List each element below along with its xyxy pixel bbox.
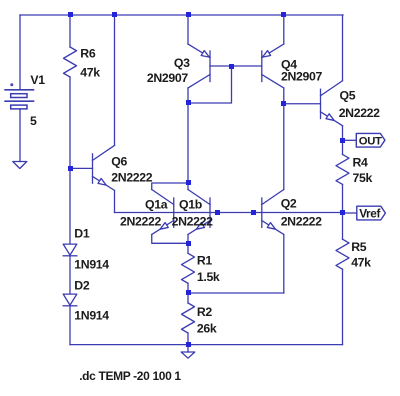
- svg-text:1.5k: 1.5k: [197, 270, 220, 284]
- svg-text:2N2907: 2N2907: [281, 69, 322, 83]
- junction node top rail / Q4 emitter: [281, 12, 286, 17]
- wire mirror node down to Q1 collectors: [187, 103, 189, 183]
- junction node Q1 collectors: [186, 180, 191, 185]
- junction node Vref: [340, 210, 345, 215]
- svg-text:R6: R6: [80, 47, 96, 61]
- transistor Q3 (PNP): [188, 44, 210, 88]
- svg-text:Q1a: Q1a: [145, 198, 168, 212]
- resistor R2: [182, 303, 195, 333]
- wire ground stub: [187, 345, 189, 352]
- wire R5 bottom lead: [342, 269, 344, 344]
- junction node Q2 base on Vref rail: [251, 210, 256, 215]
- wire Q3 collector down: [187, 88, 189, 103]
- svg-text:5: 5: [30, 114, 37, 128]
- wire R6 to D1 through Q6 base node: [69, 77, 71, 244]
- wire Q5 collector to top rail: [342, 15, 344, 81]
- svg-text:2N2222: 2N2222: [120, 214, 161, 228]
- junction node Q1 emitters / R1: [186, 241, 191, 246]
- svg-text:Q3: Q3: [174, 56, 190, 70]
- wire R6 top lead: [69, 15, 71, 47]
- svg-text:2N2222: 2N2222: [339, 106, 380, 120]
- svg-text:Q5: Q5: [340, 89, 356, 103]
- wire Q3-Q4 base tie: [210, 65, 262, 67]
- junction node OUT: [340, 138, 345, 143]
- svg-text:OUT: OUT: [359, 136, 382, 148]
- svg-text:Q6: Q6: [111, 154, 127, 168]
- svg-text:2N2907: 2N2907: [147, 71, 188, 85]
- transistor Q4 (PNP): [262, 44, 284, 88]
- wire Q6 collector to top rail: [114, 15, 116, 145]
- flag OUT: [356, 133, 385, 147]
- wire OUT node to flag: [343, 139, 357, 141]
- junction node top rail / Q6 collector: [112, 12, 117, 17]
- junction node Q6 base / diode string: [68, 166, 73, 171]
- wire Q4 collector down to Q2 collector: [283, 88, 285, 190]
- svg-text:26k: 26k: [197, 322, 217, 336]
- svg-text:2N2222: 2N2222: [111, 170, 152, 184]
- flag Vref: [357, 206, 386, 220]
- transistor Q2 (NPN): [262, 190, 284, 235]
- svg-text:R2: R2: [197, 305, 213, 319]
- ground at bottom rail: [181, 352, 195, 358]
- ground under V1: [13, 162, 27, 169]
- resistor R4: [336, 154, 349, 184]
- junction node R1/R2 / Q2 emitter: [186, 290, 191, 295]
- wire V1 top lead: [19, 15, 21, 90]
- svg-text:R1: R1: [197, 253, 213, 267]
- wire R1 top lead: [187, 243, 189, 253]
- svg-text:D2: D2: [74, 279, 90, 293]
- svg-text:Q2: Q2: [281, 196, 297, 210]
- wire Q2 emitter to R1 bottom node: [188, 292, 284, 294]
- wire Q1b collector up: [187, 183, 189, 190]
- battery V1: [4, 83, 34, 109]
- wire Vref rail: [115, 212, 343, 214]
- wire Q6 base: [70, 167, 93, 169]
- svg-text:R5: R5: [351, 240, 367, 254]
- junction node bottom rail / ground: [186, 342, 191, 347]
- transistor Q6 (NPN): [93, 145, 115, 190]
- resistor R1: [182, 253, 195, 283]
- wire Q3 emitter to top rail: [187, 15, 189, 44]
- wire Q6 emitter to Vref rail: [114, 190, 116, 212]
- wire base tie down to collector: [188, 66, 232, 103]
- wire bottom rail: [70, 344, 343, 346]
- wire R4 bottom lead: [342, 184, 344, 213]
- diode D1: [63, 244, 77, 255]
- wire R5 top lead: [342, 213, 344, 239]
- svg-text:2N2222: 2N2222: [172, 214, 213, 228]
- wire R2 bottom lead: [187, 333, 189, 345]
- wire Q5 base: [284, 103, 321, 105]
- transistor Q1b (NPN): [188, 190, 210, 235]
- wire Q1a collector up: [152, 183, 188, 190]
- wire R2 top lead: [187, 293, 189, 303]
- svg-text:1N914: 1N914: [74, 308, 109, 322]
- junction node Q1b base on Vref rail: [215, 210, 220, 215]
- transistor Q1a (NPN): [152, 190, 174, 235]
- svg-text:.dc TEMP -20 100 1: .dc TEMP -20 100 1: [79, 369, 181, 383]
- svg-text:47k: 47k: [80, 65, 100, 79]
- wire D1 to D2: [69, 256, 71, 294]
- svg-text:Q1b: Q1b: [179, 198, 202, 212]
- svg-text:V1: V1: [30, 73, 45, 87]
- wire Q1a emitter down: [152, 235, 188, 244]
- junction node top rail / Q3 emitter: [186, 12, 191, 17]
- wire D2 to bottom rail: [69, 306, 71, 345]
- svg-text:47k: 47k: [351, 256, 371, 270]
- resistor R5: [336, 239, 349, 269]
- wire V1 bottom lead: [19, 109, 21, 162]
- wire Vref node to flag: [343, 212, 357, 214]
- wire Q4 emitter to top rail: [283, 15, 285, 44]
- junction node top rail / R6: [68, 12, 73, 17]
- svg-text:R4: R4: [353, 155, 369, 169]
- svg-text:75k: 75k: [353, 171, 373, 185]
- wire R4 top lead: [342, 140, 344, 154]
- transistor Q5 (NPN): [321, 81, 343, 126]
- junction node mirror tie / Q1 collectors: [186, 100, 191, 105]
- wire Q2 emitter down: [283, 235, 285, 294]
- junction node Q5 base / Q4 collector: [281, 101, 286, 106]
- diode D2: [63, 294, 77, 305]
- wire R1 bottom lead: [187, 283, 189, 293]
- wire Q5 emitter to OUT node: [342, 126, 344, 141]
- svg-text:Vref: Vref: [359, 206, 380, 220]
- wire top supply rail: [20, 14, 343, 16]
- resistor R6: [64, 47, 77, 77]
- svg-text:D1: D1: [74, 226, 90, 240]
- svg-text:2N2222: 2N2222: [281, 214, 322, 228]
- junction node Q3/Q4 base tie: [229, 64, 234, 69]
- svg-text:1N914: 1N914: [74, 257, 109, 271]
- wire Q1b emitter down: [187, 235, 189, 244]
